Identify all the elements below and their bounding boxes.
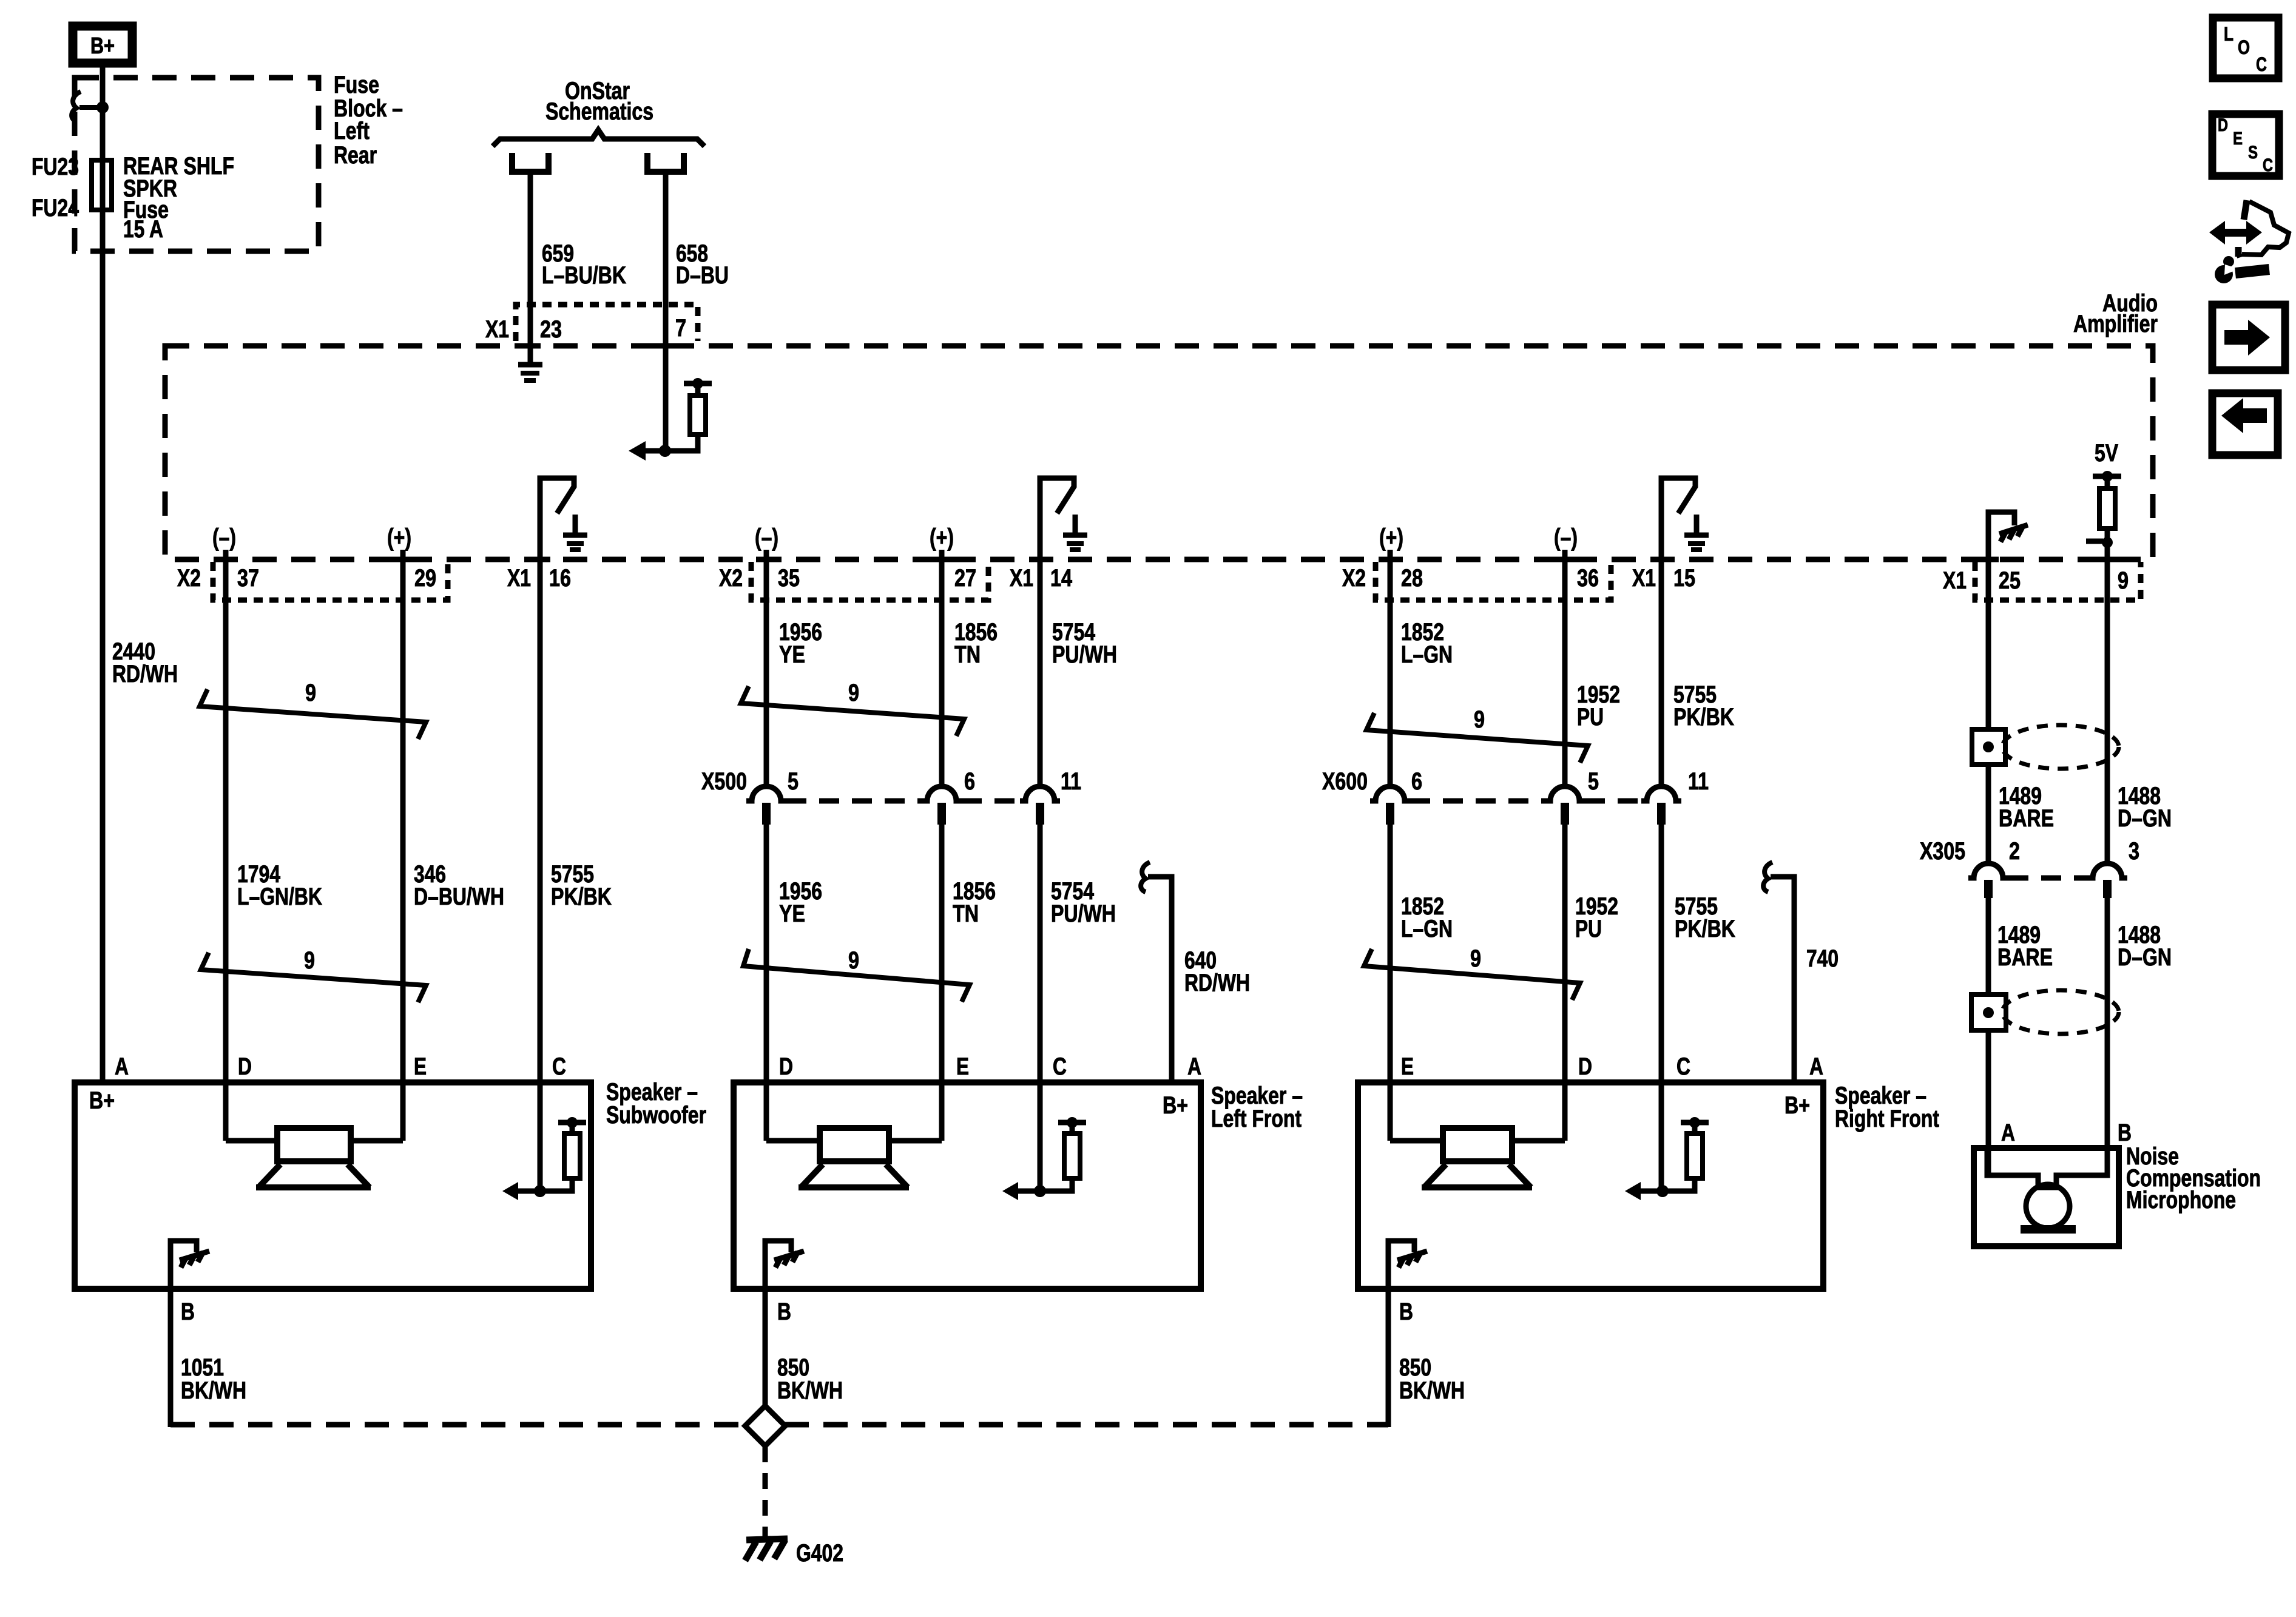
svg-text:B: B [1399,1298,1413,1325]
junction dot on C wire [1034,1185,1046,1197]
wire 1489 BARE lower [1986,898,1991,1175]
twisted pair slash (group 2 lower) [743,949,970,1002]
svg-text:9: 9 [848,680,859,706]
svg-text:B+: B+ [1784,1092,1810,1119]
svg-text:O: O [2238,36,2250,58]
wire crossing tick [1030,557,1050,562]
arrow (signal continues) [1625,1182,1641,1200]
svg-text:YE: YE [779,900,805,927]
ground net dashed wire (right) [785,1422,1388,1428]
wire to speaker element (right) [351,1138,403,1144]
pin stub [1388,550,1393,559]
speaker box: Right Front [1358,1082,1823,1289]
svg-text:B: B [777,1298,791,1325]
resistor (speaker sense) [564,1133,580,1178]
stub left of junction [2086,539,2103,544]
shield dashed ellipse (lower) [2002,990,2119,1034]
wire 1852 L-GN lower [1388,821,1393,1141]
svg-text:L–GN: L–GN [1401,916,1453,942]
connector bump X305 (x=3473) [2087,863,2127,878]
svg-text:B+: B+ [90,33,115,59]
svg-text:L–BU/BK: L–BU/BK [542,262,626,289]
svg-text:X1: X1 [485,316,509,343]
chassis ground symbol [774,1251,804,1260]
wire crossing tick [756,557,777,562]
connector X2 box (pins 28,36) [1376,562,1611,600]
svg-text:14: 14 [1050,565,1073,592]
svg-text:15 A: 15 A [123,216,163,243]
connector bump X500 (x=1714) [1020,786,1060,801]
connector X600 dashed line [1410,798,1545,804]
splice diamond S-joint [745,1406,785,1446]
svg-text:9: 9 [1474,706,1485,733]
svg-text:FU24: FU24 [32,195,79,221]
wire 5755 PK/BK lower [1659,821,1664,1191]
twisted pair slash (group 1 lower) [201,953,426,1002]
svg-text:5: 5 [788,768,799,795]
svg-text:X1: X1 [507,565,531,592]
icon DESC box [2212,114,2279,176]
svg-text:5: 5 [1588,768,1599,795]
connector X2 box (pins 37,29) [213,562,448,600]
speaker box: Subwoofer [75,1082,591,1289]
svg-text:7: 7 [675,315,686,342]
wire 1794 L-GN/BK (pin 37 to subwoofer D) [223,559,229,1141]
wire crossing tick top [520,343,541,349]
svg-text:D: D [2218,115,2228,135]
voltage tick bar (speaker sense) [558,1120,586,1126]
svg-text:36: 36 [1577,565,1599,592]
svg-text:E: E [2233,129,2243,149]
ground (earth) symbol [1073,515,1078,533]
connector bump X305 (x=3277) [1968,863,2008,878]
wire 1051 BK/WH [168,1289,174,1427]
connector X305 dashed line [2008,876,2087,881]
connector bump X500 (x=1552) [922,786,962,801]
wire 658 D-BU (x=1097) [663,172,669,451]
pin stub [1562,550,1568,559]
wire 1952 PU lower [1562,821,1568,1141]
connector bump X600 (x=2738) [1641,786,1681,801]
B+ tap hook [72,92,81,121]
ground net dashed wire (down) [763,1447,768,1534]
wire to speaker element (right) [889,1138,942,1144]
svg-text:27: 27 [954,565,976,592]
svg-text:15: 15 [1673,565,1695,592]
svg-text:C: C [1053,1053,1067,1080]
svg-text:C: C [552,1053,566,1080]
fuse block - left rear dashed box [75,78,319,251]
svg-text:(+): (+) [387,524,411,551]
svg-text:D: D [238,1053,252,1080]
wire 5V to resistor [2105,476,2110,488]
wire crossing tick [1978,557,1999,562]
connector X1 box (pins 25,9) [1975,562,2141,600]
svg-text:D–BU/WH: D–BU/WH [414,883,504,910]
connector bump X600 (x=2291) [1370,786,1410,801]
wire 5755 PK/BK (pin 16 to subwoofer C) [538,559,543,1191]
junction dot on B+ wire [96,101,109,113]
svg-text:9: 9 [848,947,859,974]
voltage tick bar (speaker sense) [1681,1120,1709,1126]
resistor (658 termination) [690,396,706,434]
svg-text:TN: TN [954,641,981,668]
wire 640 RD/WH (left front B+) [1148,877,1172,1082]
svg-text:Right Front: Right Front [1835,1106,1939,1132]
pin stub [939,550,945,559]
svg-text:B: B [2118,1119,2132,1146]
wire 1488 D-GN upper (pin 9) [2105,559,2110,864]
audio amplifier dashed box [165,346,2153,559]
junction dot 658/resistor [659,445,671,457]
wire 1952 PU upper (pin 36) [1562,559,1568,787]
svg-text:L–GN/BK: L–GN/BK [237,883,322,910]
svg-text:(–): (–) [1554,524,1578,551]
svg-text:PU/WH: PU/WH [1051,900,1116,927]
svg-text:A: A [1809,1053,1823,1080]
wire resistor top lead [570,1122,575,1133]
pin stub [764,550,769,559]
speaker element symbol [820,1128,889,1161]
ground (earth) under pin 23 [518,362,542,368]
svg-text:A: A [1187,1053,1201,1080]
svg-text:RD/WH: RD/WH [1184,970,1250,996]
wire crossing tick [215,557,236,562]
svg-text:Fuse: Fuse [334,72,379,98]
wire resistor top lead [1070,1122,1075,1133]
wire resistor bottom lead [665,434,698,451]
resistor (5V pull-up) [2099,488,2115,528]
svg-text:PK/BK: PK/BK [551,883,612,910]
icon back arrow box [2212,393,2278,455]
twisted pair slash (group 2 upper) [741,686,964,736]
svg-text:RD/WH: RD/WH [112,661,178,687]
wire 1856 TN lower [939,821,945,1141]
connector bump X600 (x=2579) [1545,786,1585,801]
svg-text:Schematics: Schematics [545,98,653,125]
svg-text:(+): (+) [1379,524,1403,551]
svg-text:E: E [414,1053,427,1080]
wire 850 BK/WH (left front) [763,1289,768,1408]
svg-text:X600: X600 [1322,768,1368,795]
B+ tap stub [79,105,103,110]
OnStar connector fork left [512,153,549,172]
svg-text:6: 6 [964,768,975,795]
twisted pair slash (group 3 upper) [1366,713,1588,763]
wire 1489 BARE upper (pin 25) [1986,559,1991,864]
svg-text:Left: Left [334,118,370,144]
svg-text:X1: X1 [1632,565,1656,592]
wire 1852 L-GN upper (pin 28) [1388,559,1393,787]
fuse FU23/FU24 REAR SHLF SPKR 15A [92,160,112,210]
svg-text:A: A [2001,1119,2015,1146]
svg-text:PU: PU [1577,704,1604,731]
wire crossing tick [530,557,550,562]
svg-text:X2: X2 [177,565,201,592]
wire to speaker element (right) [1512,1138,1565,1144]
svg-text:C: C [2256,53,2267,75]
wire to speaker element (left) [1390,1138,1443,1144]
wire to speaker element (left) [226,1138,277,1144]
shield symbol (upper) on 1489 BARE [1972,729,2005,765]
connector X500 dashed line [962,798,1020,804]
wire 850 BK/WH (right front) [1386,1289,1391,1427]
svg-text:28: 28 [1401,565,1423,592]
noise compensation microphone box [1974,1148,2119,1246]
junction dot below resistor [2102,537,2113,548]
chassis ground symbol [1397,1251,1427,1260]
internal amplifier output hook (x=2738) [1661,478,1695,559]
twisted pair slash (group 3 lower) [1364,949,1580,1000]
svg-text:PK/BK: PK/BK [1673,704,1734,731]
shield dashed ellipse (upper) [2002,725,2119,769]
svg-text:D–BU: D–BU [676,262,729,289]
svg-text:9: 9 [2118,567,2129,594]
chassis ground symbol (pin 25) [1999,525,2028,534]
wire crossing tick [393,557,413,562]
speaker box: Left Front [734,1082,1201,1289]
connector X500 dashed line [786,798,922,804]
svg-text:PK/BK: PK/BK [1675,916,1735,942]
svg-text:9: 9 [305,680,316,706]
wire to arrow [518,1189,540,1194]
wire 1956 YE upper (pin 35) [764,559,769,787]
svg-text:X1: X1 [1943,567,1967,594]
wire resistor bottom lead [540,1178,572,1191]
wire to arrow [1018,1189,1040,1194]
voltage tick bar (speaker sense) [1058,1120,1086,1126]
svg-text:BARE: BARE [1997,944,2053,971]
wire to speaker element (left) [766,1138,820,1144]
wire resistor bottom lead [1040,1178,1072,1191]
wire resistor top lead [695,383,701,396]
svg-text:Left Front: Left Front [1211,1106,1302,1132]
svg-text:BK/WH: BK/WH [777,1377,843,1404]
svg-text:A: A [115,1053,129,1080]
icon vehicle with wrench [2218,229,2254,237]
twisted pair slash (group 1 upper) [200,689,426,739]
wire to arrow [644,448,665,454]
wire crossing tick top [655,343,676,349]
icon LOC box [2213,18,2278,78]
connector bump X500 (x=1263) [746,786,786,801]
wire B to chassis ground [765,1241,791,1289]
svg-text:9: 9 [304,947,315,974]
svg-text:16: 16 [549,565,571,592]
svg-text:(–): (–) [212,524,236,551]
svg-text:D: D [1578,1053,1592,1080]
microphone internal bar [1987,1148,2107,1187]
shield symbol (lower) on 1489 BARE [1971,994,2006,1030]
svg-text:PU: PU [1575,916,1602,942]
wire resistor top lead [1692,1122,1698,1133]
wire 1856 TN upper (pin 27) [939,559,945,787]
ground stub at G402 [763,1531,768,1540]
svg-text:C: C [1676,1053,1690,1080]
junction dot on C wire [1656,1185,1669,1197]
wire to arrow [1641,1189,1663,1194]
microphone element circle [2026,1184,2070,1228]
ground (earth) symbol [1694,515,1700,533]
connector X1 box (pins 23,7) [516,305,698,341]
wire B to chassis ground [1388,1241,1414,1289]
svg-text:X500: X500 [701,768,747,795]
svg-text:25: 25 [1999,567,2021,594]
svg-text:D–GN: D–GN [2118,805,2172,832]
wire crossing tick [1651,557,1672,562]
speaker element symbol [1443,1128,1512,1161]
arrow (signal continues) [1002,1182,1018,1200]
svg-text:B: B [181,1298,195,1325]
connector X2 box (pins 35,27) [751,562,988,600]
svg-text:FU23: FU23 [32,154,79,180]
wire 5754 PU/WH upper (pin 14) [1038,559,1043,787]
svg-text:(–): (–) [755,524,778,551]
microphone base bar [2021,1225,2076,1234]
svg-text:23: 23 [540,316,562,343]
wire crossing tick [931,557,952,562]
svg-text:11: 11 [1688,768,1709,795]
svg-text:L: L [2224,23,2234,45]
resistor (speaker sense) [1687,1133,1703,1178]
OnStar connector fork right [647,153,684,172]
resistor (speaker sense) [1064,1133,1080,1178]
svg-text:2: 2 [2009,838,2020,865]
svg-text:11: 11 [1061,768,1081,795]
wire resistor bottom lead [1663,1178,1695,1191]
svg-text:B+: B+ [89,1087,115,1114]
svg-text:X305: X305 [1920,838,1965,865]
svg-text:BARE: BARE [1999,805,2054,832]
junction dot on C wire [534,1185,546,1197]
ground net dashed wire (left) [171,1422,746,1428]
arrow (signal continues) [502,1182,518,1200]
svg-text:X2: X2 [1342,565,1366,592]
wire resistor to pin 9 [2105,528,2110,559]
svg-text:740: 740 [1806,945,1838,972]
voltage tick bar for 658 pull-up [684,381,712,387]
wire 5755 PK/BK upper (pin 15) [1659,559,1664,787]
svg-text:D: D [779,1053,793,1080]
pin stub [223,550,229,559]
svg-text:(+): (+) [930,524,954,551]
svg-text:BK/WH: BK/WH [1399,1377,1465,1404]
internal amplifier output hook (x=1714) [1040,478,1074,559]
arrow (signal continues) left [629,441,646,461]
svg-text:C: C [2263,155,2273,175]
svg-text:Microphone: Microphone [2126,1187,2236,1214]
svg-text:E: E [1401,1053,1414,1080]
svg-text:D–GN: D–GN [2118,944,2172,971]
svg-text:35: 35 [778,565,800,592]
svg-text:37: 37 [237,565,259,592]
wire 740 (right front B+) [1771,877,1794,1082]
connector X600 dashed line [1585,798,1641,804]
internal amplifier output hook (x=890) [540,478,574,559]
wire B+ / 2440 RD-WH (x=169) [100,63,106,1082]
svg-text:X1: X1 [1010,565,1033,592]
wire 346 D-BU/WH (pin 29 to subwoofer E) [400,559,406,1141]
svg-text:3: 3 [2129,838,2139,865]
svg-text:Subwoofer: Subwoofer [606,1102,706,1129]
pin stub [400,550,406,559]
svg-text:E: E [956,1053,969,1080]
ground G402 chassis symbol [746,1539,788,1540]
svg-text:PU/WH: PU/WH [1052,641,1117,668]
wire crossing tick [1380,557,1400,562]
svg-text:6: 6 [1411,768,1422,795]
wire 1956 YE lower [764,821,769,1141]
svg-text:B+: B+ [1163,1092,1188,1119]
svg-text:G402: G402 [796,1540,843,1567]
wire 5754 PU/WH lower [1038,821,1043,1191]
svg-text:29: 29 [414,565,436,592]
svg-text:9: 9 [1470,945,1481,972]
svg-text:TN: TN [953,900,979,927]
svg-text:BK/WH: BK/WH [181,1377,246,1404]
brace under OnStar Schematics [493,130,704,146]
svg-text:YE: YE [779,641,805,668]
wire crossing tick [2097,557,2118,562]
svg-text:X2: X2 [719,565,743,592]
wire B to chassis ground [171,1241,197,1289]
junction dot on 658 pull-up bar [692,378,703,389]
svg-text:Amplifier: Amplifier [2073,311,2158,337]
svg-text:S: S [2248,143,2258,163]
power feed B+ box [73,26,132,63]
wire crossing tick [1555,557,1575,562]
wire to chassis ground (pin 25) [1988,512,2014,559]
icon forward arrow box [2212,305,2285,370]
svg-text:5V: 5V [2095,440,2118,467]
wire 659 L-BU/BK (x=874) [528,172,533,362]
chassis ground symbol [180,1251,209,1260]
svg-text:Rear: Rear [334,142,377,169]
junction dot 5V [2102,471,2113,482]
5V voltage tick bar [2093,474,2121,479]
speaker element symbol [277,1128,351,1161]
B+ tap hook (640) [1141,862,1150,892]
ground (earth) symbol [573,515,578,533]
wire 1488 D-GN lower [2105,898,2110,1175]
svg-text:L–GN: L–GN [1401,641,1453,668]
B+ tap hook (740) [1763,862,1772,892]
